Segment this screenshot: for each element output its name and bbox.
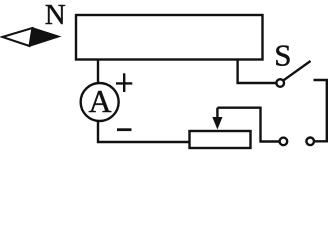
switch S pivot circle <box>276 79 284 87</box>
wire right terminal to switch <box>314 80 327 141</box>
compass needle <box>2 28 59 46</box>
wire ammeter to rheostat <box>98 122 190 142</box>
terminal circle left <box>280 138 288 146</box>
terminal circle right <box>306 138 314 146</box>
ammeter A <box>81 83 119 121</box>
black half of needle <box>30 28 60 46</box>
wire solenoid to switch <box>238 60 276 84</box>
solenoid box <box>76 15 263 60</box>
minus terminal label <box>117 128 132 131</box>
white half of needle <box>2 28 32 46</box>
switch S blade <box>284 61 311 80</box>
svg-text:N: N <box>45 0 66 31</box>
svg-text:S: S <box>274 38 291 73</box>
svg-text:A: A <box>89 83 112 119</box>
rheostat body <box>190 131 251 148</box>
plus terminal label <box>116 73 132 92</box>
wire solenoid to ammeter <box>97 60 99 83</box>
rheostat slider arrow <box>212 108 222 130</box>
wire slider to bottom-left terminal <box>217 108 279 142</box>
